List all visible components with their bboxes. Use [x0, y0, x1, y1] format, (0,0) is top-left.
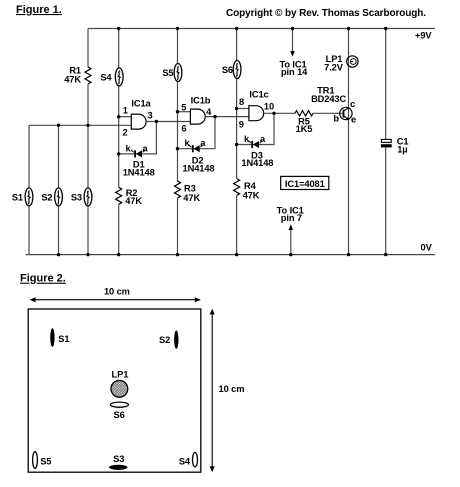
- svg-text:S5: S5: [162, 68, 173, 78]
- svg-text:S4: S4: [100, 73, 112, 83]
- sensor S2 pad (figure 2): [174, 330, 178, 348]
- svg-text:S1: S1: [12, 192, 23, 202]
- wire IC1a output: [146, 121, 190, 123]
- C1 label: [397, 137, 409, 155]
- junction dots gate inputs: [117, 107, 238, 119]
- IC1c label: [249, 90, 268, 100]
- S5 pad label: [40, 456, 51, 466]
- diode D1: [131, 150, 145, 158]
- resistor R1: [85, 67, 91, 84]
- R2 value label: [125, 188, 142, 206]
- wire collector column: [348, 29, 350, 255]
- wire IC1b output: [205, 116, 249, 118]
- svg-text:IC1a: IC1a: [131, 99, 151, 109]
- D2 a label: [200, 138, 206, 148]
- D1 value label: [123, 167, 155, 177]
- S3 label: [71, 192, 82, 202]
- resistor R4: [234, 179, 240, 196]
- LP1 label: [324, 54, 344, 72]
- svg-text:S2: S2: [41, 192, 52, 202]
- 0V label: [421, 243, 433, 253]
- wire S4 column: [118, 29, 120, 255]
- svg-text:10: 10: [264, 102, 274, 112]
- junction dots gate outputs: [155, 112, 276, 124]
- To IC1 pin 7 arrow: [289, 224, 293, 254]
- svg-text:LP1: LP1: [112, 369, 129, 379]
- wire IC1b pin 5: [178, 111, 191, 113]
- IC1b pin 4 label: [206, 107, 212, 117]
- R4 value label: [243, 181, 260, 200]
- svg-text:10 cm: 10 cm: [219, 384, 245, 394]
- svg-text:S5: S5: [40, 456, 51, 466]
- IC1c pin 9 label: [239, 119, 244, 129]
- svg-text:47K: 47K: [125, 196, 142, 206]
- svg-text:2: 2: [123, 128, 128, 138]
- sensor S4 pad (figure 2): [179, 453, 198, 467]
- IC1a label: [131, 99, 151, 109]
- diode D3: [248, 141, 262, 149]
- svg-text:+9V: +9V: [415, 31, 432, 41]
- svg-text:S6: S6: [114, 410, 125, 420]
- op-amp gate IC1a: [131, 114, 146, 129]
- D2 name label: [192, 156, 204, 166]
- D3 a label: [260, 134, 266, 144]
- Figure 2 enclosure square: [28, 309, 201, 472]
- D3 name label: [251, 151, 263, 161]
- svg-text:47K: 47K: [243, 190, 260, 200]
- junction dots top rail: [117, 27, 387, 30]
- wire IC1c pin 8: [237, 108, 249, 110]
- svg-text:Copyright © by Rev. Thomas Sca: Copyright © by Rev. Thomas Scarborough.: [226, 8, 426, 19]
- svg-text:1K5: 1K5: [296, 124, 313, 134]
- 0V rail: [26, 254, 436, 256]
- IC1a pin 3 label: [147, 110, 152, 120]
- D1 name label: [133, 159, 145, 169]
- copyright notice: [226, 8, 426, 19]
- junction dots diode lines: [117, 143, 238, 156]
- To IC1 pin 14 label: [279, 59, 308, 77]
- diode D2: [189, 145, 203, 153]
- S6 pad label: [114, 410, 125, 420]
- IC1=4081 box: [281, 176, 329, 189]
- R5 value label: [296, 117, 313, 134]
- svg-text:1N4148: 1N4148: [241, 158, 273, 168]
- junction dots input bus: [57, 124, 90, 127]
- lamp LP1: [347, 56, 358, 67]
- svg-text:S3: S3: [71, 192, 82, 202]
- svg-text:S2: S2: [159, 335, 170, 345]
- TR1 e label: [351, 115, 356, 125]
- wire C1 column: [385, 29, 387, 255]
- TR1 c label: [350, 99, 355, 109]
- svg-text:c: c: [350, 99, 355, 109]
- svg-text:BD243C: BD243C: [311, 94, 346, 104]
- wire S2 column: [58, 125, 60, 254]
- svg-text:Figure 2.: Figure 2.: [20, 273, 66, 285]
- svg-text:e: e: [351, 115, 356, 125]
- wire D2 feedback loop: [178, 117, 216, 149]
- IC1c pin 10 label: [264, 102, 274, 112]
- wire IC1c output: [264, 112, 295, 114]
- wire S5 column: [177, 29, 179, 255]
- svg-text:IC1=4081: IC1=4081: [285, 179, 325, 189]
- resistor R2: [116, 187, 122, 204]
- svg-text:pin 14: pin 14: [281, 67, 308, 77]
- sensor S6 pad (figure 2): [110, 402, 128, 407]
- IC1c pin 8 label: [239, 97, 244, 107]
- svg-text:R3: R3: [184, 184, 196, 194]
- capacitor C1: [381, 139, 392, 147]
- R1 value label: [64, 66, 81, 85]
- R3 value label: [183, 184, 200, 204]
- svg-text:47K: 47K: [64, 75, 81, 85]
- svg-text:10 cm: 10 cm: [104, 287, 130, 297]
- svg-text:7.2V: 7.2V: [324, 62, 344, 72]
- svg-text:1N4148: 1N4148: [123, 167, 155, 177]
- resistor R5: [295, 111, 313, 116]
- D2 k label: [184, 138, 190, 148]
- sensor S6: [233, 61, 241, 79]
- junction dots bottom rail: [57, 253, 388, 256]
- IC1b label: [191, 96, 211, 106]
- svg-text:1µ: 1µ: [397, 144, 407, 154]
- svg-text:S3: S3: [113, 454, 124, 464]
- svg-text:pin 7: pin 7: [281, 213, 302, 223]
- svg-text:3: 3: [147, 110, 152, 120]
- svg-text:IC1b: IC1b: [191, 96, 211, 106]
- wire IC1a pin 1: [119, 116, 132, 118]
- op-amp gate IC1b: [190, 109, 205, 124]
- sensor S3: [84, 188, 92, 206]
- S5 label: [162, 68, 173, 78]
- Figure 2 title: [20, 273, 66, 285]
- TR1 b label: [333, 114, 339, 124]
- sensor S3 pad (figure 2): [109, 454, 128, 470]
- sensor S2: [55, 188, 63, 206]
- sensor S1: [25, 188, 33, 206]
- svg-text:b: b: [333, 114, 339, 124]
- Figure 2 height dimension arrow: [210, 309, 215, 473]
- S4 label: [100, 73, 112, 83]
- IC1a pin 2 label: [123, 128, 128, 138]
- svg-text:Figure 1.: Figure 1.: [16, 4, 62, 16]
- wire D3 feedback loop: [237, 113, 274, 144]
- S1 pad label: [58, 334, 69, 344]
- sensor S5: [174, 64, 182, 82]
- transistor Q1 TR1: [340, 107, 352, 119]
- D3 k label: [244, 134, 250, 144]
- Figure 1 title: [16, 4, 62, 16]
- svg-text:0V: 0V: [421, 243, 433, 253]
- svg-text:8: 8: [239, 97, 244, 107]
- svg-text:S4: S4: [179, 457, 191, 467]
- S2 label: [41, 192, 52, 202]
- Figure 2 height dimension label: [219, 384, 245, 394]
- wire R5 to base: [313, 112, 343, 114]
- svg-text:6: 6: [181, 123, 186, 133]
- wire S6 column: [236, 29, 238, 255]
- S6 label: [222, 65, 233, 75]
- svg-text:1: 1: [123, 106, 128, 116]
- sensor S4: [115, 68, 123, 86]
- resistor R3: [175, 181, 181, 198]
- wire D1 feedback loop: [119, 122, 157, 154]
- D1 a label: [142, 143, 148, 153]
- To IC1 pin 14 arrow: [290, 29, 294, 57]
- Figure 2 width dimension arrow: [30, 297, 201, 302]
- svg-text:1N4148: 1N4148: [183, 163, 215, 173]
- IC1a pin 1 label: [123, 106, 128, 116]
- IC1b pin 5 label: [181, 102, 186, 112]
- wire R1/S3 column: [87, 29, 89, 255]
- op-amp gate IC1c: [249, 106, 264, 121]
- S1 label: [12, 192, 23, 202]
- svg-text:S1: S1: [58, 334, 69, 344]
- svg-text:S6: S6: [222, 65, 233, 75]
- S2 pad label: [159, 335, 170, 345]
- D2 value label: [183, 163, 215, 173]
- svg-text:9: 9: [239, 119, 244, 129]
- wire input bus to IC1a pin 2: [29, 124, 131, 126]
- D3 value label: [241, 158, 273, 168]
- svg-text:IC1c: IC1c: [249, 90, 268, 100]
- D1 k label: [125, 143, 131, 153]
- TR1 label: [311, 86, 346, 104]
- svg-text:47K: 47K: [183, 193, 200, 203]
- sensor S1 pad (figure 2): [50, 328, 54, 347]
- sensor S5 pad (figure 2): [33, 452, 38, 469]
- +9V rail: [88, 28, 435, 30]
- To IC1 pin 7 label: [277, 205, 304, 223]
- Figure 2 width dimension label: [104, 287, 130, 297]
- wire S1 column: [28, 125, 30, 254]
- IC1b pin 6 label: [181, 123, 186, 133]
- +9V label: [415, 31, 432, 41]
- svg-text:5: 5: [181, 102, 186, 112]
